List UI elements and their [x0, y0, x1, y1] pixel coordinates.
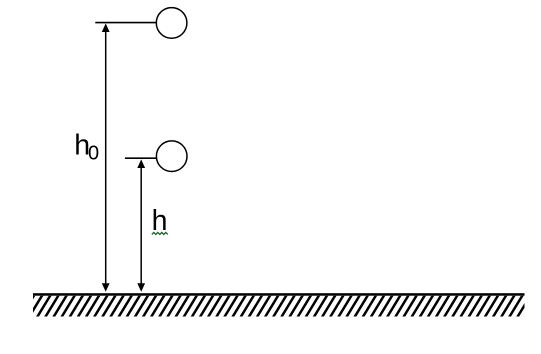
arrow h0 head up: [102, 23, 110, 32]
arrow h0 head down: [102, 283, 110, 292]
wire: middle reference line from arrow to middle ball: [125, 157, 157, 159]
squiggle underline under h: [152, 232, 168, 234]
arrow h head down: [137, 283, 145, 292]
arrow h0 shaft: [105, 32, 107, 284]
ball (top), circle: [156, 8, 187, 39]
wire: top reference line from arrow to top ball: [95, 22, 156, 24]
svg-text:0: 0: [88, 142, 99, 164]
arrow h head up: [137, 159, 145, 168]
arrow h shaft: [140, 168, 142, 284]
ball (middle), circle: [156, 141, 187, 172]
ground top border: [33, 293, 525, 296]
